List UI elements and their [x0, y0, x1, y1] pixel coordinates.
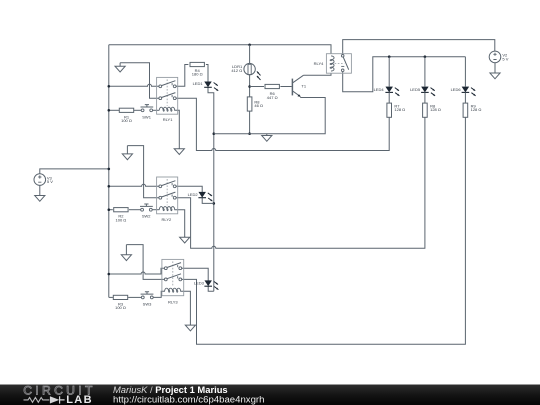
svg-text:128 Ω: 128 Ω: [430, 107, 441, 112]
wire: SW1 to RLY1 coil: [153, 109, 160, 111]
svg-text:http://circuitlab.com/c6p4bae4: http://circuitlab.com/c6p4bae4nxgrh: [113, 394, 264, 405]
wire: R3 row from rail: [109, 296, 113, 298]
wire: +5V left rail (V3 net): [108, 45, 110, 298]
resistor R8 (LED5 branch): [423, 103, 428, 117]
svg-text:46 Ω: 46 Ω: [254, 103, 263, 108]
voltage source V3: [34, 174, 46, 186]
wire: RLY2 row1 NO to LED2 anode: [176, 186, 202, 192]
pushbutton SW3: [141, 292, 154, 299]
wire: R1 row from rail: [109, 109, 119, 111]
svg-text:RLY1: RLY1: [163, 117, 173, 122]
wire: LED2 cathode to LED return column: [202, 198, 214, 204]
wire: RLY1 row2 NO to R7 return: [176, 98, 389, 150]
node: R8 at ground rail: [248, 132, 251, 135]
ground: RLY2 common: [122, 146, 132, 160]
svg-text:100 Ω: 100 Ω: [115, 305, 126, 310]
wire: RLY1 ground link to row2: [120, 63, 159, 98]
wire: RLY3 row1 from rail (hop over ground link): [109, 268, 165, 274]
LED LED3: [204, 281, 218, 290]
wire: rail to LED6: [464, 57, 466, 87]
wire: V2 to ground: [494, 63, 496, 73]
wire: LED3 cathode joins LED return column: [208, 286, 214, 291]
wire: RLY3 row1 NO to LED3 anode: [182, 268, 208, 281]
svg-text:LED6: LED6: [451, 87, 462, 92]
wire: RLY3 coil to ground: [180, 291, 190, 325]
relay RLY1: [157, 77, 178, 114]
node: rail R1 row: [108, 109, 111, 112]
svg-text:T1: T1: [301, 83, 306, 88]
wire: V3 to rail: [40, 169, 109, 174]
relay RLY2: [157, 177, 178, 214]
ground: RLY1 common: [115, 63, 125, 72]
node: rail RLY1 row1: [108, 85, 111, 88]
wire: RLY2 coil to ground: [174, 210, 184, 237]
svg-text:100 Ω: 100 Ω: [121, 118, 132, 123]
wire: ground rail (LED return / emitter): [214, 98, 325, 134]
svg-text:5 V: 5 V: [502, 57, 508, 62]
wire: top feed rail to RLY4 coil: [109, 45, 331, 54]
wire: RLY3 row2 NO to R9 return (bottom rail): [182, 117, 466, 344]
node: rail RLY2 row1: [108, 185, 111, 188]
ground: RLY3 common: [121, 245, 131, 261]
ground: RLY2 coil return: [180, 236, 190, 243]
wire: R2 to SW2: [129, 209, 141, 211]
ground: V2: [490, 73, 500, 79]
wire: divider to R6: [250, 86, 264, 88]
svg-text:5 V: 5 V: [47, 179, 53, 184]
wire: RLY2 ground link to row2: [127, 146, 158, 198]
svg-text:LED2: LED2: [188, 192, 199, 197]
LED LED1: [204, 82, 218, 91]
svg-text:LAB: LAB: [66, 394, 93, 405]
resistor R8 (divider): [247, 97, 252, 111]
pushbutton SW2: [140, 204, 153, 211]
svg-text:128 Ω: 128 Ω: [394, 107, 405, 112]
node: LED5 branch junction: [424, 55, 427, 58]
svg-text:SW3: SW3: [143, 301, 152, 306]
ground: V3: [35, 195, 45, 201]
wire: LED4 to R7: [388, 92, 390, 103]
wire: R2 row from rail: [109, 209, 113, 211]
wire: RLY2 row2 NO to R8 return: [176, 117, 425, 248]
wire: RLY1 coil to ground: [174, 110, 179, 148]
svg-text:LED3: LED3: [194, 280, 205, 285]
wire: V3 to ground: [39, 185, 41, 195]
resistor R7: [387, 103, 392, 117]
svg-text:128 Ω: 128 Ω: [471, 107, 482, 112]
node: LDR/R8/R6 divider: [248, 85, 251, 88]
svg-text:RLY4: RLY4: [314, 61, 324, 66]
wire: rail to LED5: [424, 57, 426, 87]
svg-text:SW1: SW1: [142, 114, 151, 119]
wire: R6 to T1 base: [280, 86, 291, 88]
photoresistor LDR1: [244, 63, 261, 80]
wire: RLY4 switch NO contact to LED supply rail: [343, 57, 466, 92]
voltage source V2: [489, 51, 501, 63]
svg-text:180 Ω: 180 Ω: [192, 72, 203, 77]
wire: LED6 to R9: [464, 92, 466, 103]
node: V3 at rail: [108, 168, 111, 171]
svg-text:SW2: SW2: [142, 214, 151, 219]
wire: RLY2 row1 from rail (hop over ground link): [109, 184, 159, 186]
ground: main schematic ground: [262, 134, 272, 142]
resistor R1: [119, 108, 133, 112]
svg-text:LED5: LED5: [410, 87, 421, 92]
LED LED2: [198, 192, 212, 201]
wire: LED1 cathode to common LED return column: [208, 87, 214, 291]
relay RLY4 (horizontal): [326, 54, 351, 73]
relay RLY3: [162, 259, 184, 295]
node: rail RLY3 row1: [108, 273, 111, 276]
resistor R6: [265, 84, 279, 88]
LED LED6: [462, 87, 476, 96]
wire: R4 to LED1 anode: [206, 65, 208, 82]
svg-text:LED1: LED1: [193, 81, 204, 86]
pushbutton SW1: [141, 105, 154, 112]
logo zigzag-diode circuit: [24, 398, 50, 403]
node: top rail to LDR junction: [248, 44, 251, 47]
wire: RLY3 ground link to row2: [126, 245, 164, 280]
node: LED4 branch junction: [388, 55, 391, 58]
wire: R1 to SW1: [134, 109, 141, 111]
wire: rail to LED4: [388, 57, 390, 87]
wire: LED5 to R8: [424, 92, 426, 103]
wire: RLY1 row1 from rail (hop over ground link): [109, 84, 159, 86]
svg-text:412 Ω: 412 Ω: [231, 68, 242, 73]
node: LED2 cathode junction: [213, 202, 216, 205]
node: rail R2 row: [108, 208, 111, 211]
svg-text:LED4: LED4: [374, 87, 385, 92]
wire: V2 to RLY4 switch common: [343, 40, 495, 55]
svg-text:100 Ω: 100 Ω: [116, 217, 127, 222]
wire: LDR column from top rail: [249, 45, 251, 64]
resistor R2: [114, 208, 128, 212]
resistor R9: [463, 103, 468, 117]
wire: R3 to SW3: [128, 296, 143, 298]
transistor T1: [292, 75, 303, 97]
wire: R8 bottom to ground rail: [249, 111, 251, 134]
node: LED return at ground rail: [213, 132, 216, 135]
wire: SW3 to RLY3 coil: [153, 291, 165, 297]
ground: RLY3 coil return: [185, 324, 195, 331]
resistor R3: [113, 295, 127, 299]
resistor R4: [190, 62, 204, 66]
wire: LDR to divider node: [249, 75, 251, 97]
svg-text:RLY2: RLY2: [162, 217, 172, 222]
svg-text:RLY3: RLY3: [168, 300, 178, 305]
wire: RLY1 row1 NO to R4: [176, 65, 188, 87]
LED LED5: [421, 87, 435, 96]
LED LED4: [385, 87, 399, 96]
wire: SW2 to RLY2 coil: [152, 209, 159, 211]
ground: RLY1 coil return: [174, 148, 184, 155]
svg-text:447 Ω: 447 Ω: [267, 95, 278, 100]
wire: T1 collector to RLY4 coil: [303, 73, 331, 75]
footer bar: [0, 385, 540, 405]
